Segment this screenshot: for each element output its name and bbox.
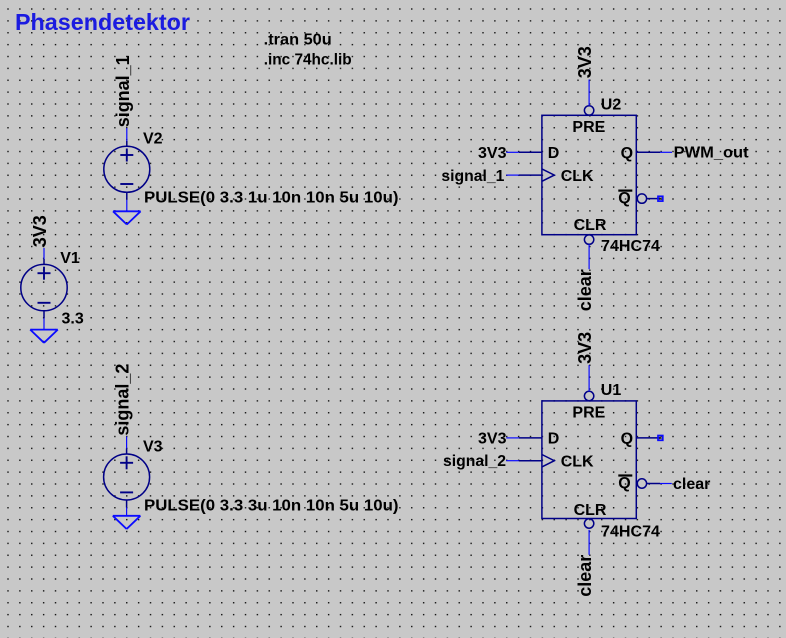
flip-flop U1 body — [519, 391, 660, 528]
svg-text:V2: V2 — [143, 131, 163, 148]
svg-text:74HC74: 74HC74 — [601, 238, 660, 255]
svg-text:Q: Q — [621, 145, 633, 162]
wire signal_2 to V3 plus — [126, 437, 128, 449]
svg-text:V1: V1 — [60, 250, 80, 267]
wire U1 PRE to 3V3 — [588, 365, 590, 391]
svg-text:signal_2: signal_2 — [113, 364, 133, 436]
ground V2 — [113, 211, 141, 224]
wire 3V3 to U2 D — [506, 151, 519, 153]
unconnected pin square U1 Q — [658, 436, 663, 441]
svg-text:74HC74: 74HC74 — [601, 524, 660, 541]
unconnected pin square U2 Qbar — [658, 196, 663, 201]
svg-text:clear: clear — [575, 555, 595, 597]
wire 3V3 to V1 plus — [43, 248, 45, 259]
svg-text:CLR: CLR — [574, 217, 607, 234]
svg-text:signal_2: signal_2 — [443, 453, 506, 470]
wire U1 CLR to clear — [588, 530, 590, 555]
svg-text:CLK: CLK — [561, 454, 594, 471]
voltage source V3 symbol — [104, 448, 150, 507]
svg-text:PULSE(0 3.3 3u 10n 10n 5u 10u): PULSE(0 3.3 3u 10n 10n 5u 10u) — [144, 498, 399, 515]
svg-text:PRE: PRE — [572, 404, 605, 421]
svg-text:signal_1: signal_1 — [113, 55, 133, 127]
wire V3 minus to ground — [126, 508, 128, 516]
svg-text:CLR: CLR — [574, 502, 607, 519]
svg-text:CLK: CLK — [561, 168, 594, 185]
wire U2 CLR to clear — [588, 244, 590, 269]
svg-text:D: D — [548, 430, 560, 447]
svg-text:V3: V3 — [143, 439, 163, 456]
wire signal_1 to V2 plus — [126, 128, 128, 141]
svg-text:Q: Q — [618, 475, 630, 492]
svg-text:3V3: 3V3 — [478, 430, 507, 447]
ground V1 — [30, 330, 58, 343]
wire U2 Q to PWM_out — [660, 151, 672, 153]
svg-text:PRE: PRE — [572, 119, 605, 136]
wire signal_1 to U2 CLK — [506, 174, 519, 176]
flip-flop U2 body — [519, 106, 660, 245]
svg-text:.inc 74hc.lib: .inc 74hc.lib — [264, 51, 352, 68]
svg-text:PULSE(0 3.3 1u 10n 10n 5u 10u): PULSE(0 3.3 1u 10n 10n 5u 10u) — [144, 190, 399, 207]
svg-text:D: D — [548, 145, 560, 162]
svg-text:U1: U1 — [601, 382, 622, 399]
svg-text:Phasendetektor: Phasendetektor — [15, 9, 190, 35]
svg-text:3V3: 3V3 — [575, 332, 595, 364]
svg-text:3V3: 3V3 — [478, 145, 507, 162]
svg-text:Q: Q — [618, 190, 630, 207]
wire 3V3 to U1 D — [506, 437, 519, 439]
wire V2 minus to ground — [126, 200, 128, 212]
svg-text:signal_1: signal_1 — [441, 168, 504, 185]
wire U1 Qbar to clear — [660, 483, 672, 485]
svg-text:3V3: 3V3 — [575, 46, 595, 78]
voltage source V2 symbol — [104, 141, 150, 200]
wire V1 minus to ground — [43, 318, 45, 329]
svg-text:U2: U2 — [601, 96, 622, 113]
ground V3 — [113, 516, 141, 529]
wire U2 PRE to 3V3 — [588, 80, 590, 106]
svg-text:clear: clear — [673, 476, 710, 493]
svg-text:Q: Q — [621, 430, 633, 447]
svg-text:3V3: 3V3 — [30, 215, 50, 247]
svg-text:3.3: 3.3 — [62, 311, 84, 328]
voltage source V1 symbol — [21, 259, 67, 318]
svg-text:clear: clear — [575, 269, 595, 311]
wire signal_2 to U1 CLK — [506, 460, 519, 462]
svg-text:PWM_out: PWM_out — [674, 144, 750, 161]
svg-text:.tran 50u: .tran 50u — [264, 31, 332, 48]
